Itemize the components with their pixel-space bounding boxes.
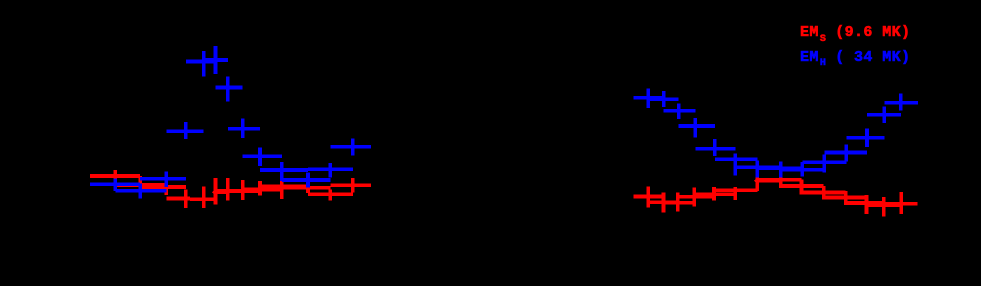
right EM_S red point 9: error bar <box>800 179 804 194</box>
right EM_H blue point 7: error bar <box>755 161 759 178</box>
left EM_S red point 10: diamond marker <box>279 183 286 190</box>
left EM_S red point 2: bin line <box>115 183 166 187</box>
left EM_S red point 12: bin line <box>308 193 353 197</box>
right EM_S red point 10: diamond marker <box>820 189 827 196</box>
left EM_S red point 7: bin line <box>216 189 243 193</box>
right EM_H blue point 10: diamond marker <box>821 159 828 166</box>
right EM_S red point 5: diamond marker <box>711 191 718 198</box>
left EM_H blue point 12: error bar <box>329 163 333 178</box>
right EM_H blue point 13: bin line <box>867 113 901 117</box>
left EM_S red point 2: diamond marker <box>137 182 144 189</box>
right EM_S red point 6: diamond marker <box>732 187 739 194</box>
right EM_H blue point 12: diamond marker <box>864 135 871 142</box>
right EM_S red point 8: bin line <box>757 178 801 182</box>
left panel: EM_H (blue, hot component) step series with error bars <box>90 46 371 198</box>
left EM_H blue point 3: bin line <box>140 177 186 181</box>
left panel: EM_S (red, soft component) step series with error bars <box>90 170 371 208</box>
left EM_H blue point 8: error bar <box>241 118 245 137</box>
right EM_H blue point 2: diamond marker <box>660 96 667 103</box>
left EM_H blue point 11: bin line <box>282 178 331 182</box>
left EM_S red point 1: bin line <box>90 174 140 178</box>
left EM_H blue point 8: bin line <box>228 127 260 131</box>
left EM_S red point 3: diamond marker <box>163 184 170 191</box>
left EM_S red point 4: error bar <box>184 190 188 209</box>
left EM_S red point 11: bin line <box>282 186 331 190</box>
left EM_S red point 5: bin line <box>190 198 214 202</box>
right EM_H blue point 10: bin line <box>802 160 846 164</box>
left EM_S red point 11: diamond marker <box>305 184 312 191</box>
left EM_S red point 3: error bar <box>165 182 169 195</box>
right EM_S red point 13: diamond marker <box>881 202 888 209</box>
right EM_H blue point 3: diamond marker <box>675 107 682 114</box>
right EM_S red point 11: diamond marker <box>842 194 849 201</box>
left EM_H blue point 1: diamond marker <box>112 181 119 188</box>
left EM_H blue point 6: diamond marker <box>212 57 219 64</box>
right EM_H blue point 3: bin line <box>664 109 696 113</box>
left EM_H blue point 13: bin line <box>330 145 371 149</box>
right EM_S red point 14: bin line <box>884 202 918 206</box>
right EM_S red point 4: error bar <box>692 188 696 207</box>
right EM_S red point 12: bin line <box>846 201 884 205</box>
right EM_H blue point 13: error bar <box>882 107 886 124</box>
left EM_H blue point 12: bin line <box>308 167 353 171</box>
left EM_H blue point 13: error bar <box>351 139 355 156</box>
left EM_S red point 5: diamond marker <box>200 196 207 203</box>
right EM_H blue point 1: diamond marker <box>645 94 652 101</box>
right EM_S red point 8: diamond marker <box>777 176 784 183</box>
right EM_S red point 2: bin line <box>648 201 678 205</box>
left EM_S red point 4: bin line <box>166 197 190 201</box>
left EM_H blue point 2: diamond marker <box>137 188 144 195</box>
right EM_S red point 9: diamond marker <box>798 183 805 190</box>
right EM_H blue point 9: error bar <box>801 162 805 177</box>
left EM_H blue point 4: error bar <box>184 122 188 139</box>
right EM_H blue point 11: error bar <box>844 145 848 162</box>
right EM_S red point 13: error bar <box>882 197 886 216</box>
right panel: EM_S (red) step series with error bars <box>634 174 918 216</box>
right EM_S red point 2: error bar <box>662 192 666 212</box>
right EM_H blue point 13: diamond marker <box>881 112 888 119</box>
right EM_S red point 5: error bar <box>712 187 716 201</box>
left EM_S red point 6: diamond marker <box>212 189 219 196</box>
right EM_H blue point 8: diamond marker <box>777 165 784 172</box>
left EM_H blue point 12: diamond marker <box>327 166 334 173</box>
right EM_H blue point 3: error bar <box>677 103 681 119</box>
left EM_S red point 4: diamond marker <box>183 195 190 202</box>
right EM_H blue point 14: diamond marker <box>898 99 905 106</box>
left EM_H blue point 3: error bar <box>165 171 169 187</box>
right EM_H blue point 5: bin line <box>695 147 735 151</box>
left EM_H blue point 7: error bar <box>226 77 230 102</box>
left EM_S red point 7: error bar <box>226 178 230 201</box>
left EM_S red point 10: error bar <box>280 175 284 200</box>
right EM_S red point 11: error bar <box>844 191 848 205</box>
left EM_S red point 9: bin line <box>243 188 282 192</box>
right EM_S red point 1: diamond marker <box>645 193 652 200</box>
right EM_S red point 6: bin line <box>714 188 757 192</box>
left EM_S red point 11: error bar <box>306 181 310 193</box>
right EM_H blue point 12: error bar <box>865 129 869 147</box>
right EM_H blue point 8: bin line <box>757 167 802 171</box>
right EM_S red point 11: bin line <box>824 196 867 200</box>
left EM_H blue point 5: error bar <box>202 51 206 77</box>
right EM_H blue point 7: diamond marker <box>754 164 761 171</box>
right EM_H blue point 6: error bar <box>733 153 737 175</box>
right EM_S red point 3: diamond marker <box>675 200 682 207</box>
right EM_H blue point 1: error bar <box>646 89 650 109</box>
left EM_H blue point 9: diamond marker <box>257 153 264 160</box>
right EM_H blue point 4: diamond marker <box>692 123 699 130</box>
left EM_H blue point 2: error bar <box>138 184 142 199</box>
right EM_S red point 4: bin line <box>678 195 714 199</box>
right EM_H blue point 11: diamond marker <box>843 149 850 156</box>
right panel: EM_H (blue) step series with error bars <box>634 89 919 178</box>
right EM_S red point 1: bin line <box>634 195 664 199</box>
legend line 2: EM_H ( 34 MK) in blue <box>800 49 910 70</box>
right EM_S red point 3: error bar <box>676 192 680 211</box>
right EM_H blue point 5: diamond marker <box>712 146 719 153</box>
right EM_S red point 10: bin line <box>802 191 846 195</box>
left EM_S red point 12: error bar <box>329 189 333 200</box>
left EM_S red point 9: error bar <box>258 181 262 196</box>
left EM_H blue point 11: diamond marker <box>305 177 312 184</box>
left EM_S red point 12: diamond marker <box>327 191 334 198</box>
legend line 1: EM_S (9.6 MK) in red <box>800 24 910 45</box>
left EM_S red point 1: diamond marker <box>112 173 119 180</box>
right EM_H blue point 6: diamond marker <box>732 156 739 163</box>
right EM_S red point 10: error bar <box>822 186 826 200</box>
right EM_S red point 7: bin line <box>756 179 781 183</box>
right EM_S red point 13: bin line <box>867 203 902 207</box>
left EM_H blue point 1: error bar <box>114 179 118 192</box>
left EM_H blue point 11: error bar <box>306 173 310 188</box>
right EM_H blue point 10: error bar <box>822 154 826 172</box>
left EM_H blue point 10: error bar <box>280 162 284 181</box>
right EM_H blue point 2: bin line <box>648 97 679 101</box>
left EM_S red point 6: bin line <box>214 191 228 195</box>
left EM_S red point 9: diamond marker <box>257 186 264 193</box>
right EM_H blue point 12: bin line <box>846 136 884 140</box>
right EM_S red point 7: diamond marker <box>754 177 761 184</box>
left EM_S red point 8: diamond marker <box>239 188 246 195</box>
left EM_S red point 6: error bar <box>214 178 218 204</box>
right EM_S red point 14: error bar <box>899 192 903 214</box>
right EM_S red point 4: diamond marker <box>691 194 698 201</box>
left EM_S red point 5: error bar <box>202 187 206 209</box>
right EM_S red point 6: error bar <box>733 187 737 200</box>
left EM_H blue point 4: bin line <box>166 129 203 133</box>
left EM_S red point 13: bin line <box>330 183 371 187</box>
right EM_H blue point 5: error bar <box>713 139 717 156</box>
left EM_H blue point 6: error bar <box>214 46 218 74</box>
right EM_H blue point 14: bin line <box>884 101 918 105</box>
right EM_S red point 12: error bar <box>865 195 869 214</box>
right EM_H blue point 14: error bar <box>899 94 903 111</box>
left EM_H blue point 9: error bar <box>258 148 262 166</box>
right EM_H blue point 7: bin line <box>735 166 780 170</box>
left EM_H blue point 13: diamond marker <box>350 143 357 150</box>
left EM_H blue point 8: diamond marker <box>239 126 246 133</box>
right EM_S red point 3: bin line <box>664 201 695 205</box>
left EM_H blue point 5: diamond marker <box>200 58 207 65</box>
right EM_S red point 8: error bar <box>779 177 783 188</box>
right EM_S red point 2: diamond marker <box>660 199 667 206</box>
left EM_S red point 2: error bar <box>138 176 142 193</box>
right EM_S red point 12: diamond marker <box>863 200 870 207</box>
right EM_H blue point 4: bin line <box>679 124 715 128</box>
left EM_S red point 1: error bar <box>114 170 118 183</box>
left EM_H blue point 5: bin line <box>186 60 216 64</box>
left EM_S red point 8: error bar <box>241 180 245 200</box>
right EM_H blue point 2: error bar <box>662 91 666 107</box>
right EM_S red point 7: error bar <box>755 174 759 191</box>
right EM_H blue point 9: bin line <box>781 168 825 172</box>
left EM_H blue point 9: bin line <box>243 155 282 159</box>
left EM_S red point 3: bin line <box>140 185 186 189</box>
right EM_H blue point 9: diamond marker <box>799 167 806 174</box>
right EM_S red point 14: diamond marker <box>898 200 905 207</box>
left EM_S red point 7: diamond marker <box>225 188 232 195</box>
right EM_H blue point 8: error bar <box>779 162 783 178</box>
left EM_H blue point 2: bin line <box>115 189 166 193</box>
left EM_H blue point 7: bin line <box>216 86 243 90</box>
right EM_H blue point 4: error bar <box>694 118 698 138</box>
left EM_H blue point 1: bin line <box>90 183 140 187</box>
left EM_S red point 13: error bar <box>351 178 355 193</box>
right EM_S red point 5: bin line <box>694 193 735 197</box>
right EM_S red point 9: bin line <box>781 184 824 188</box>
right EM_S red point 1: error bar <box>646 187 650 208</box>
left EM_H blue point 7: diamond marker <box>225 84 232 91</box>
left EM_S red point 8: bin line <box>228 190 260 194</box>
left EM_S red point 10: bin line <box>260 185 308 189</box>
left EM_H blue point 6: bin line <box>204 58 228 62</box>
left EM_H blue point 10: bin line <box>260 168 308 172</box>
right EM_H blue point 6: bin line <box>715 158 758 162</box>
left EM_S red point 13: diamond marker <box>350 182 357 189</box>
left EM_H blue point 4: diamond marker <box>183 128 190 135</box>
right EM_H blue point 11: bin line <box>824 151 867 155</box>
left EM_H blue point 10: diamond marker <box>279 167 286 174</box>
left EM_H blue point 3: diamond marker <box>163 175 170 182</box>
right EM_H blue point 1: bin line <box>634 96 664 100</box>
